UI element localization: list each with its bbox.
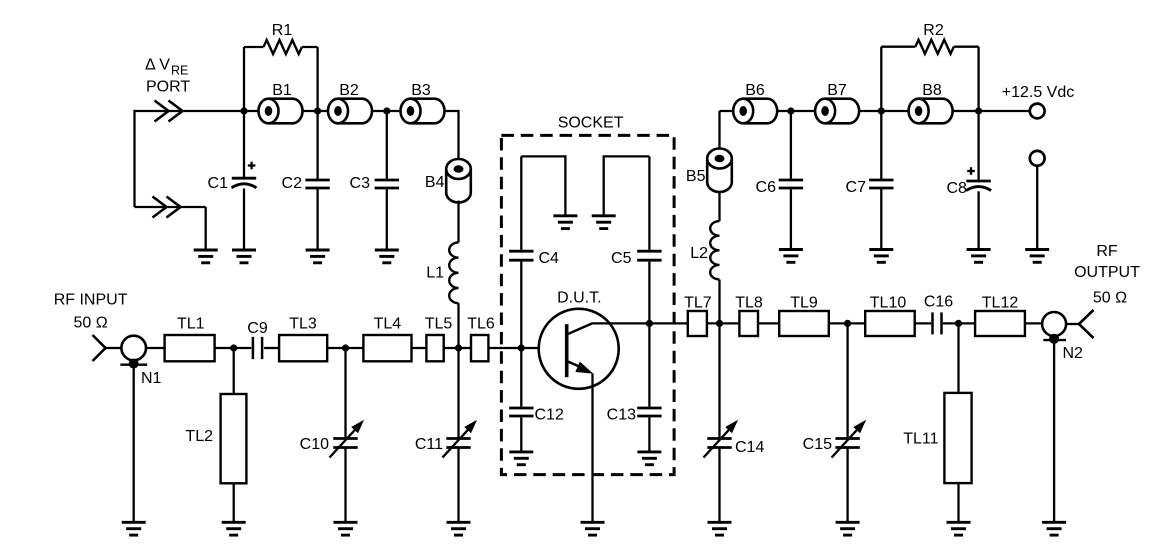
svg-text:TL1: TL1 bbox=[177, 315, 205, 332]
ground (N2) bbox=[1042, 522, 1066, 535]
wire junction to TL11 bbox=[957, 323, 959, 393]
node return terminal bbox=[1030, 151, 1045, 166]
transistor DUT bbox=[539, 290, 619, 389]
wire TL2 to ground bbox=[233, 483, 235, 522]
ground (left clip) bbox=[553, 216, 577, 229]
svg-text:C16: C16 bbox=[924, 294, 953, 311]
svg-text:B1: B1 bbox=[272, 82, 292, 99]
wire top bus right bbox=[720, 110, 1030, 112]
capacitor C7 bbox=[846, 111, 894, 250]
node junction C15 bbox=[844, 320, 851, 327]
svg-text:TL9: TL9 bbox=[790, 295, 818, 312]
capacitor C6 bbox=[756, 111, 804, 250]
capacitor C12 bbox=[509, 407, 564, 424]
svg-text:B3: B3 bbox=[411, 82, 431, 99]
wire TL4 to TL5 bbox=[412, 347, 427, 349]
inductor L2 bbox=[690, 221, 719, 279]
transmission line TL3 bbox=[279, 315, 327, 361]
transmission line TL12 bbox=[975, 295, 1025, 337]
node junction collector/C5 line bbox=[646, 320, 653, 327]
svg-text:N1: N1 bbox=[141, 370, 162, 387]
svg-text:+12.5 Vdc: +12.5 Vdc bbox=[1002, 84, 1075, 101]
svg-text:C13: C13 bbox=[607, 407, 636, 424]
capacitor C3 bbox=[350, 111, 399, 250]
capacitor C16 (series) bbox=[924, 294, 953, 335]
svg-text:C8: C8 bbox=[946, 180, 967, 197]
wire C5 to C13 bbox=[648, 262, 650, 407]
wire C16 to TL12 bbox=[943, 322, 975, 324]
wire bus drop to B4 bbox=[457, 110, 459, 159]
wire TL9 to TL10 bbox=[829, 322, 865, 324]
socket dashed outline bbox=[501, 115, 674, 475]
svg-text:TL4: TL4 bbox=[374, 315, 402, 332]
ground (return terminal) bbox=[1025, 250, 1049, 263]
wire to ground stub bbox=[205, 207, 207, 250]
svg-text:Δ V: Δ V bbox=[145, 57, 170, 74]
wire C14 to ground bbox=[718, 448, 720, 523]
connector output chevron bbox=[1079, 310, 1094, 338]
svg-text:R2: R2 bbox=[923, 22, 944, 39]
svg-text:B6: B6 bbox=[745, 82, 765, 99]
wire N2 to chevron bbox=[1066, 323, 1079, 325]
wire return terminal to ground bbox=[1036, 166, 1038, 250]
node junction C3 bbox=[383, 107, 390, 114]
svg-text:TL5: TL5 bbox=[425, 315, 453, 332]
node junction C1/R1 bbox=[240, 107, 247, 114]
svg-text:C3: C3 bbox=[350, 175, 371, 192]
svg-text:50 Ω: 50 Ω bbox=[1093, 290, 1127, 307]
socket clip left bbox=[521, 156, 565, 215]
svg-text:50 Ω: 50 Ω bbox=[73, 315, 107, 332]
ground (VRE return) bbox=[194, 250, 218, 263]
ground (C12) bbox=[509, 452, 533, 465]
socket clip right bbox=[604, 156, 650, 215]
svg-text:B8: B8 bbox=[922, 82, 942, 99]
svg-text:C9: C9 bbox=[247, 320, 268, 337]
transmission line TL6 bbox=[467, 315, 495, 361]
transmission line TL11 bbox=[903, 393, 971, 483]
ground (TL11) bbox=[947, 522, 971, 535]
wire TL12 to N2 bbox=[1025, 322, 1042, 324]
wire L2 to output junction bbox=[718, 280, 720, 324]
wire socket right column upper bbox=[648, 156, 650, 249]
ground (C7) bbox=[869, 250, 893, 263]
resistor R1 bbox=[244, 22, 318, 111]
capacitor C9 (series) bbox=[247, 320, 268, 359]
connector N1 bbox=[120, 336, 161, 387]
node junction L2/C14 bbox=[716, 320, 723, 327]
ground (N1) bbox=[122, 522, 146, 535]
capacitor C1 (polarized) bbox=[208, 111, 257, 250]
ground (C1) bbox=[232, 250, 256, 263]
svg-text:B2: B2 bbox=[339, 82, 359, 99]
svg-text:TL3: TL3 bbox=[289, 315, 317, 332]
node junction L1/C11 bbox=[455, 344, 462, 351]
transmission line TL2 bbox=[185, 394, 246, 483]
transmission line TL9 bbox=[779, 295, 829, 337]
svg-text:C1: C1 bbox=[208, 175, 229, 192]
ground (C6) bbox=[779, 250, 803, 263]
wire TL1 to C9 bbox=[215, 347, 252, 349]
wire VRE left rail bbox=[133, 110, 135, 207]
svg-text:TL8: TL8 bbox=[735, 295, 763, 312]
ferrite bead B8 bbox=[909, 82, 953, 123]
wire TL11 to ground bbox=[957, 483, 959, 522]
svg-text:RF INPUT: RF INPUT bbox=[54, 292, 128, 309]
svg-text:RE: RE bbox=[171, 64, 188, 78]
wire B5 to bus bbox=[718, 111, 720, 149]
ground (C14) bbox=[708, 522, 732, 535]
wire N1 to ground bbox=[133, 364, 135, 522]
transmission line TL7 bbox=[684, 295, 712, 337]
wire junction to C15 bbox=[846, 323, 848, 438]
wire DUT collector bbox=[592, 322, 688, 324]
svg-text:L2: L2 bbox=[690, 245, 708, 262]
svg-text:C5: C5 bbox=[611, 250, 632, 267]
node delta-VRE port label bbox=[145, 57, 190, 96]
node +12.5 Vdc terminal bbox=[1002, 84, 1075, 118]
wire TL5 to TL6 bbox=[444, 347, 471, 349]
wire C12 to ground bbox=[520, 417, 522, 452]
wire N1 to TL1 bbox=[146, 347, 165, 349]
connector input chevron bbox=[93, 335, 106, 361]
svg-text:C6: C6 bbox=[756, 179, 777, 196]
wire socket left column upper bbox=[520, 156, 522, 249]
svg-text:C14: C14 bbox=[735, 439, 764, 456]
svg-text:PORT: PORT bbox=[146, 79, 190, 96]
svg-text:R1: R1 bbox=[272, 22, 293, 39]
ferrite bead B7 bbox=[815, 82, 859, 123]
ferrite bead B6 bbox=[733, 82, 777, 123]
svg-text:D.U.T.: D.U.T. bbox=[557, 290, 601, 307]
ferrite bead B5 bbox=[686, 149, 732, 193]
connector lower chevrons bbox=[153, 197, 181, 218]
inductor L1 bbox=[426, 242, 458, 303]
transmission line TL10 bbox=[865, 295, 915, 337]
variable capacitor C14 bbox=[704, 420, 765, 458]
node RF input label bbox=[54, 292, 128, 332]
node junction C10 bbox=[342, 344, 349, 351]
wire C4 to C12 bbox=[520, 262, 522, 407]
svg-text:TL7: TL7 bbox=[684, 295, 712, 312]
node junction C6 bbox=[787, 107, 794, 114]
capacitor C8 (polarized) bbox=[946, 111, 991, 250]
wire top bus (VRE to B4 drop) bbox=[135, 110, 459, 112]
wire TL6 to DUT base bbox=[488, 347, 566, 349]
svg-text:N2: N2 bbox=[1063, 345, 1084, 362]
svg-text:SOCKET: SOCKET bbox=[558, 115, 624, 132]
variable capacitor C10 bbox=[300, 420, 364, 458]
node junction TL2 bbox=[230, 344, 237, 351]
ground (C15) bbox=[836, 522, 860, 535]
wire junction to C11 bbox=[457, 348, 459, 439]
wire TL7 to TL8 bbox=[707, 322, 740, 324]
wire VRE lower line bbox=[135, 206, 206, 208]
svg-text:C15: C15 bbox=[803, 436, 832, 453]
variable capacitor C11 bbox=[415, 420, 477, 458]
wire B5 to L2 bbox=[718, 191, 720, 222]
ground (C3) bbox=[375, 250, 399, 263]
svg-text:C2: C2 bbox=[282, 175, 303, 192]
connector upper chevrons bbox=[155, 101, 183, 122]
capacitor C13 bbox=[607, 407, 662, 424]
node junction base/C4 line bbox=[518, 344, 525, 351]
wire junction to C14 bbox=[718, 323, 720, 438]
wire junction to C10 bbox=[344, 348, 346, 439]
ground (C8) bbox=[967, 250, 991, 263]
ground (emitter) bbox=[581, 522, 605, 535]
wire N2 to ground bbox=[1053, 339, 1055, 522]
capacitor C5 bbox=[611, 250, 662, 267]
ferrite bead B4 bbox=[425, 159, 471, 203]
connector N2 bbox=[1042, 312, 1083, 362]
transmission line TL5 bbox=[425, 315, 453, 361]
svg-text:C7: C7 bbox=[846, 179, 867, 196]
ground (C10) bbox=[334, 522, 358, 535]
transmission line TL8 bbox=[735, 295, 763, 337]
resistor R2 bbox=[881, 22, 978, 111]
svg-text:B7: B7 bbox=[827, 82, 847, 99]
wire TL8 to TL9 bbox=[758, 322, 779, 324]
wire C13 to ground bbox=[648, 417, 650, 452]
svg-text:TL12: TL12 bbox=[982, 295, 1019, 312]
svg-text:OUTPUT: OUTPUT bbox=[1074, 264, 1140, 281]
ground (C2) bbox=[306, 250, 330, 263]
ground (TL2) bbox=[222, 522, 246, 535]
wire C11 to ground bbox=[457, 448, 459, 523]
svg-text:L1: L1 bbox=[426, 265, 444, 282]
svg-text:TL10: TL10 bbox=[870, 295, 907, 312]
transmission line TL4 bbox=[363, 315, 411, 361]
wire C9 to TL3 bbox=[264, 347, 279, 349]
svg-text:C11: C11 bbox=[415, 436, 443, 453]
capacitor C4 bbox=[509, 250, 559, 267]
svg-text:C10: C10 bbox=[300, 436, 329, 453]
wire B4 to L1 bbox=[457, 201, 459, 243]
wire TL3 to TL4 bbox=[327, 347, 363, 349]
ground (C13) bbox=[637, 452, 661, 465]
capacitor C2 bbox=[282, 111, 330, 250]
svg-text:RF: RF bbox=[1096, 243, 1118, 260]
ferrite bead B2 bbox=[328, 82, 372, 123]
variable capacitor C15 bbox=[803, 420, 867, 458]
svg-text:TL11: TL11 bbox=[903, 431, 938, 448]
wire L1 to input line bbox=[457, 303, 459, 348]
wire C10 to ground bbox=[344, 448, 346, 523]
svg-text:C4: C4 bbox=[539, 250, 560, 267]
node RF output label bbox=[1074, 243, 1140, 307]
svg-text:TL2: TL2 bbox=[185, 428, 213, 445]
node junction C8/R2 bbox=[975, 107, 982, 114]
ferrite bead B3 bbox=[401, 82, 445, 123]
wire junction to TL2 bbox=[233, 348, 235, 394]
svg-text:TL6: TL6 bbox=[467, 315, 495, 332]
wire TL10 to C16 bbox=[915, 322, 931, 324]
svg-text:C12: C12 bbox=[535, 407, 564, 424]
ground (right clip) bbox=[592, 216, 616, 229]
wire chevron to N1 bbox=[106, 347, 122, 349]
node junction TL11 bbox=[955, 320, 962, 327]
svg-text:B4: B4 bbox=[425, 174, 445, 191]
node junction C7/R2 bbox=[878, 107, 885, 114]
wire DUT emitter to ground bbox=[591, 374, 593, 523]
ferrite bead B1 bbox=[259, 82, 303, 123]
wire C15 to ground bbox=[846, 448, 848, 523]
svg-text:B5: B5 bbox=[686, 168, 706, 185]
transmission line TL1 bbox=[165, 315, 215, 361]
node junction C2/R1 bbox=[314, 107, 321, 114]
ground (C11) bbox=[447, 522, 471, 535]
